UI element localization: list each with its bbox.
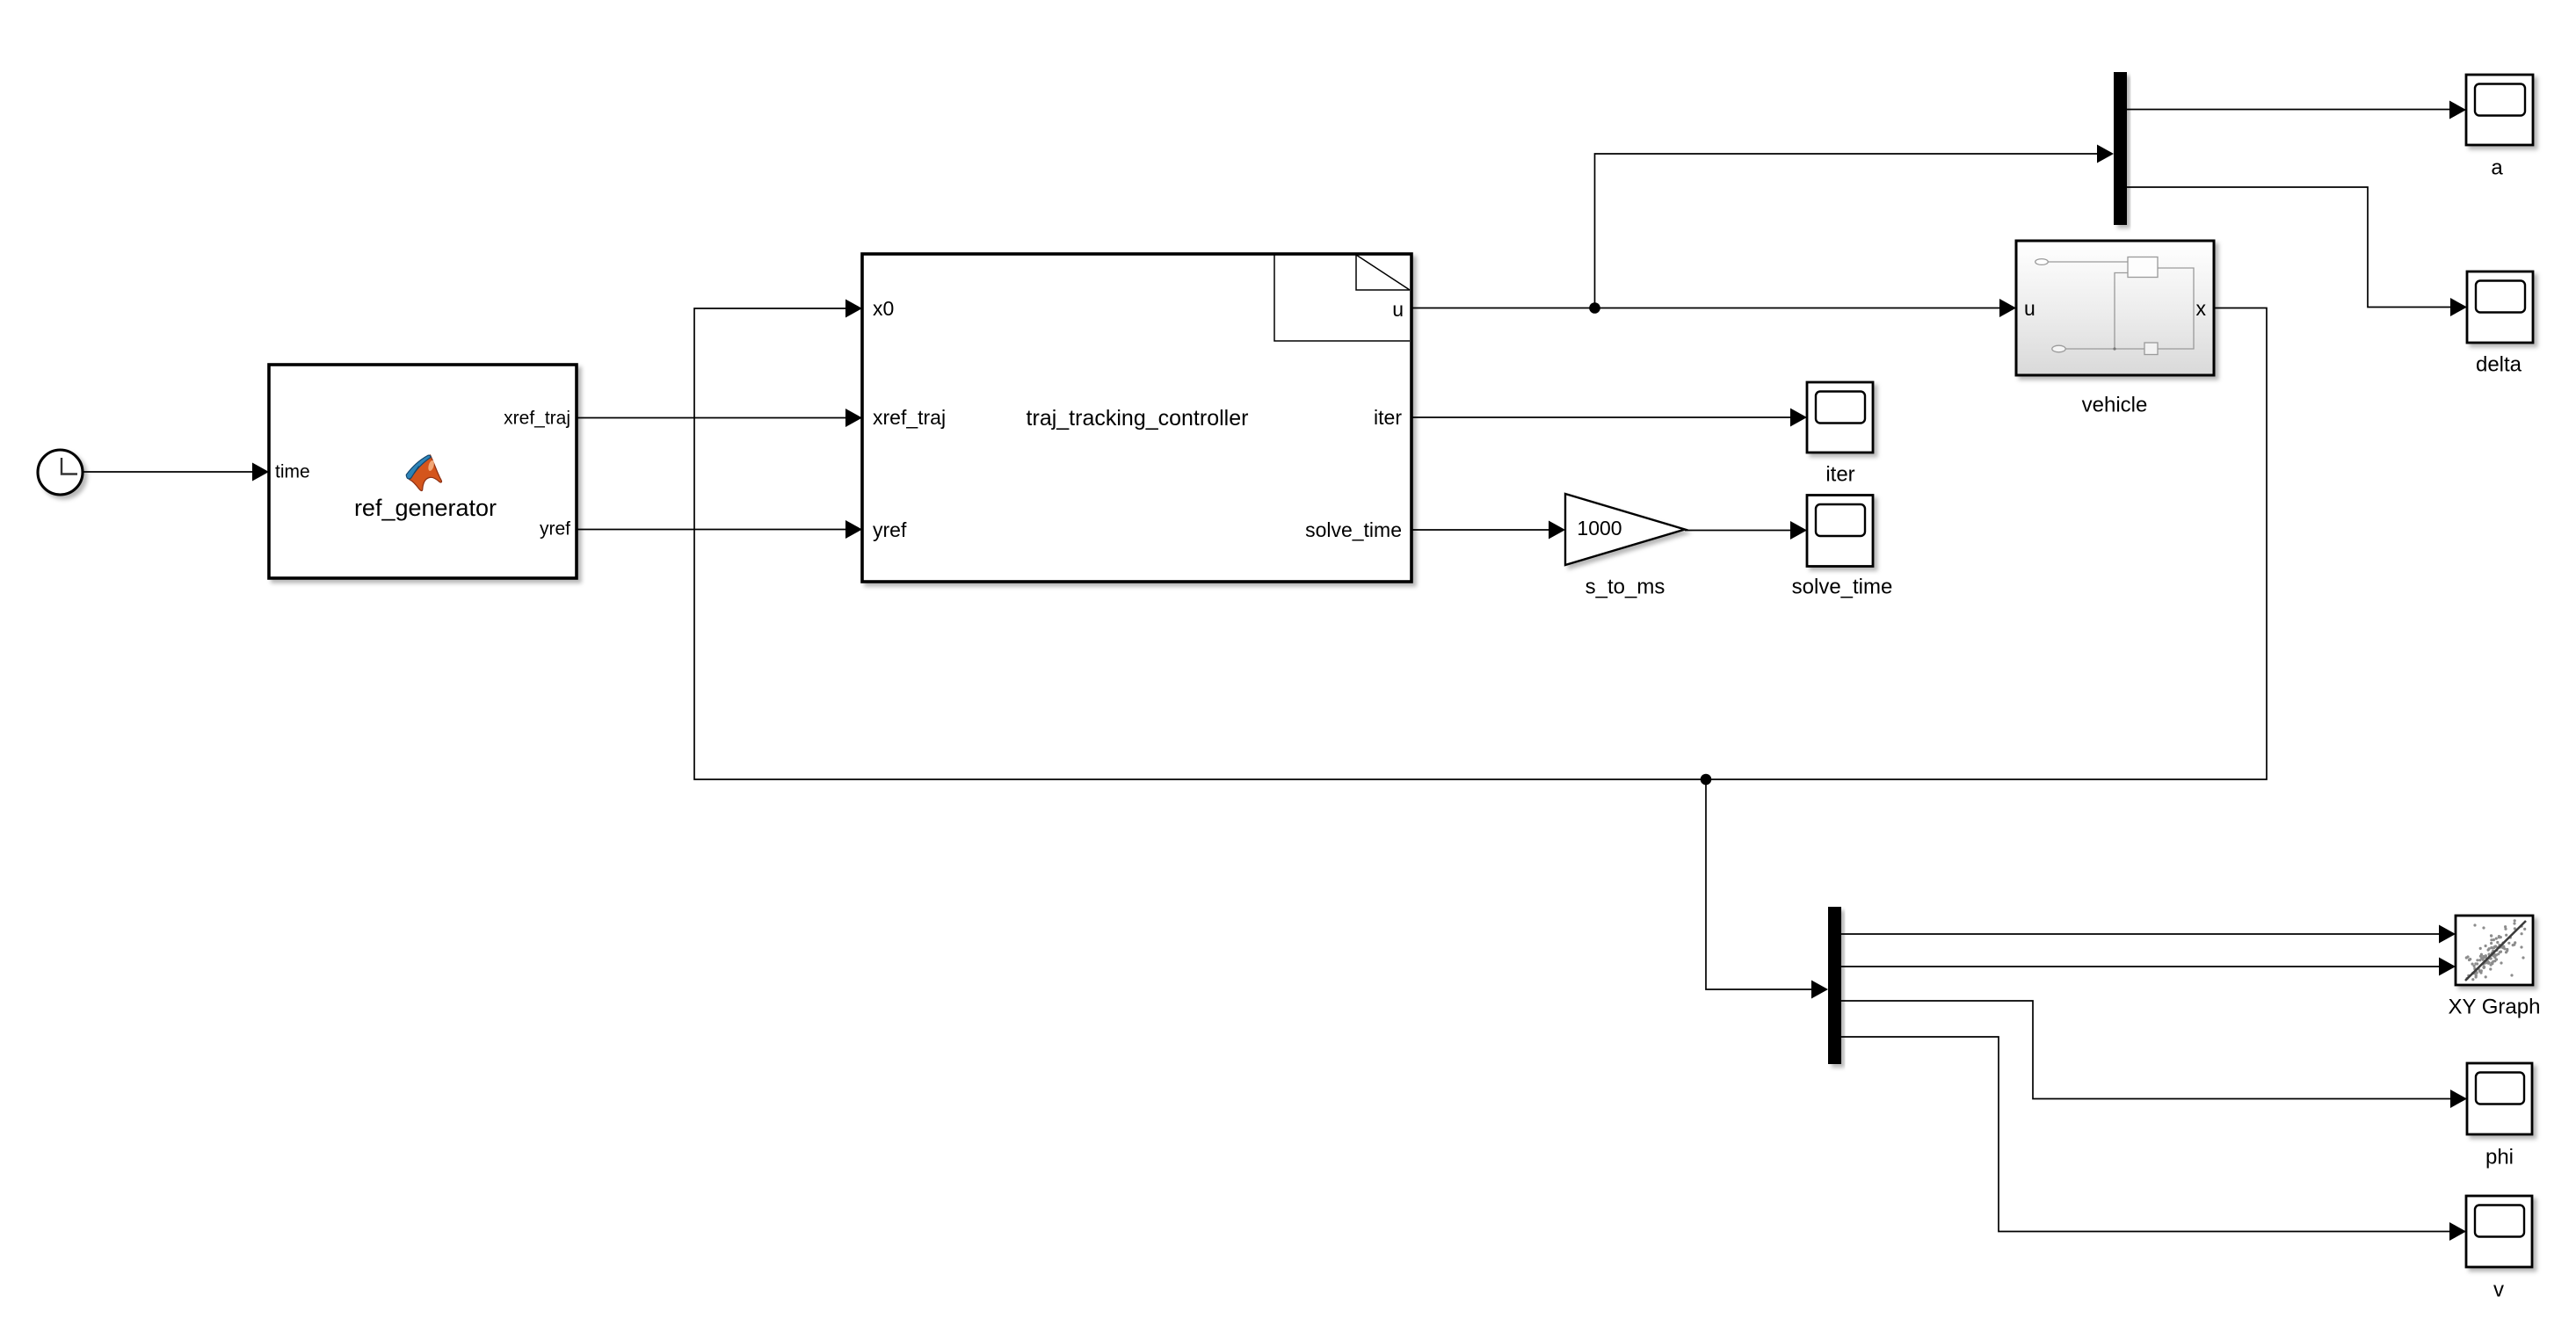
svg-text:XY Graph: XY Graph <box>2449 996 2541 1019</box>
svg-text:u: u <box>2024 297 2035 320</box>
block vehicle <box>2016 241 2214 375</box>
wire vehicle x feedback to controller x0 <box>694 300 2267 780</box>
svg-text:x: x <box>2196 297 2207 320</box>
block traj_tracking_controller <box>862 254 1411 582</box>
svg-text:1000: 1000 <box>1577 517 1622 540</box>
svg-text:xref_traj: xref_traj <box>873 406 946 429</box>
scope delta <box>2467 272 2533 343</box>
svg-text:phi: phi <box>2485 1146 2514 1170</box>
demux bar (top) <box>2114 72 2127 225</box>
svg-text:yref: yref <box>873 518 907 541</box>
clock block <box>38 450 83 495</box>
svg-text:ref_generator: ref_generator <box>354 495 497 521</box>
svg-text:solve_time: solve_time <box>1305 518 1402 541</box>
wire mux out4 to scope v <box>1841 1037 2466 1241</box>
MATLAB logo icon <box>406 455 441 491</box>
wire ref_generator yref to controller <box>577 520 862 539</box>
block ref_generator <box>269 365 577 578</box>
junction dot on feedback wire <box>1701 774 1712 786</box>
wire ref_generator xref_traj to controller <box>577 409 862 427</box>
svg-text:iter: iter <box>1825 463 1854 487</box>
scope a <box>2466 75 2533 145</box>
svg-text:time: time <box>275 462 310 482</box>
svg-text:vehicle: vehicle <box>2082 394 2148 417</box>
svg-text:xref_traj: xref_traj <box>504 409 570 429</box>
wire demux out2 to scope delta <box>2127 187 2467 316</box>
svg-text:x0: x0 <box>873 297 894 320</box>
wire clock to ref_generator time <box>83 463 269 482</box>
gain s_to_ms <box>1565 494 1685 565</box>
svg-text:iter: iter <box>1374 406 1402 429</box>
svg-text:yref: yref <box>540 519 570 540</box>
svg-text:a: a <box>2491 156 2503 180</box>
scope solve_time <box>1807 496 1873 567</box>
svg-text:delta: delta <box>2476 353 2522 377</box>
scope phi <box>2467 1063 2532 1134</box>
svg-text:s_to_ms: s_to_ms <box>1586 576 1665 599</box>
wire mux out1 to XY Graph first input <box>1841 925 2456 944</box>
scope v <box>2466 1196 2532 1267</box>
wire controller iter to scope iter <box>1411 409 1807 427</box>
wire feedback branch to mux <box>1706 779 1828 999</box>
wire controller solve_time to gain <box>1411 521 1565 540</box>
wire demux out1 to scope a <box>2127 101 2466 119</box>
wire u branch up to demux <box>1595 145 2115 308</box>
page icon with folded corner <box>1274 255 1410 341</box>
svg-text:traj_tracking_controller: traj_tracking_controller <box>1027 406 1249 431</box>
block XY Graph <box>2456 916 2533 985</box>
wire mux out3 to scope phi <box>1841 1001 2467 1108</box>
wire controller u to vehicle <box>1411 299 2016 317</box>
svg-text:v: v <box>2493 1278 2504 1302</box>
scope iter <box>1807 382 1873 453</box>
svg-text:solve_time: solve_time <box>1792 576 1893 599</box>
wire mux out2 to XY Graph second input <box>1841 958 2456 976</box>
mux bar (bottom) <box>1828 907 1841 1064</box>
svg-text:u: u <box>1392 298 1404 321</box>
junction dot on u wire <box>1589 302 1600 314</box>
wire gain to scope solve_time <box>1685 521 1807 540</box>
